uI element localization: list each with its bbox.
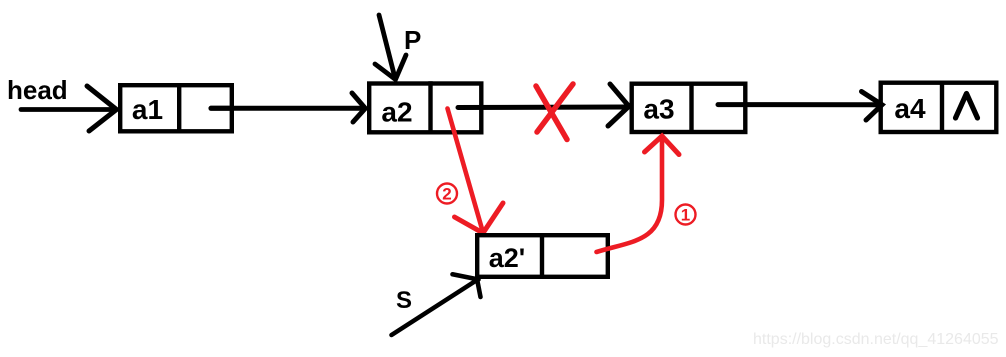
P pointer arrow shaft	[379, 15, 395, 78]
node a3 box	[632, 84, 746, 132]
svg-text:P: P	[404, 25, 421, 55]
a3 incoming arrowhead	[608, 84, 629, 126]
node a4 divider	[940, 81, 944, 135]
red arrow 2 arrowhead	[455, 203, 504, 233]
svg-text:head: head	[7, 75, 68, 105]
node a2 divider	[428, 81, 432, 134]
wire head arrow shaft	[21, 107, 114, 112]
node a1 box	[120, 85, 232, 131]
svg-text:S: S	[396, 287, 412, 314]
a2 incoming arrowhead	[352, 93, 365, 122]
wire a2 to a3	[458, 105, 626, 111]
node a2 box	[369, 84, 481, 133]
svg-text:a4: a4	[894, 93, 926, 124]
node a3 divider	[689, 82, 693, 135]
node a1 divider	[177, 83, 181, 134]
S arrowhead leg lower	[478, 282, 481, 298]
svg-text:a1: a1	[132, 94, 163, 125]
circled 2 label	[437, 184, 457, 204]
a4 incoming arrowhead	[862, 92, 883, 121]
null marker in a4	[956, 94, 978, 119]
S pointer arrow shaft	[392, 280, 478, 335]
head arrowhead	[87, 86, 117, 131]
S arrowhead leg upper	[453, 274, 479, 279]
red arrow 2 shaft (a2 cell to a2')	[448, 109, 484, 233]
P arrowhead	[375, 55, 406, 80]
red arrow 1 arrowhead	[645, 136, 680, 155]
node a2' box	[477, 235, 608, 277]
node a2' divider	[540, 233, 544, 279]
wire a3 to a4	[718, 102, 879, 107]
red X cross line 1	[536, 86, 567, 140]
svg-text:a2': a2'	[489, 243, 525, 273]
red X cross line 2	[537, 84, 573, 132]
svg-text:1: 1	[681, 206, 690, 225]
red arrow 1 (a2' cell to a3) shaft curve	[597, 140, 663, 252]
node a4 box	[881, 83, 997, 132]
circled 1 label	[676, 205, 696, 225]
pointer stub inside a1 right cell	[211, 106, 232, 111]
svg-text:2: 2	[442, 185, 451, 204]
svg-text:https://blog.csdn.net/qq_41264: https://blog.csdn.net/qq_41264055	[753, 331, 999, 348]
svg-text:a2: a2	[381, 97, 412, 128]
svg-text:a3: a3	[643, 94, 674, 125]
wire a1 to a2	[211, 106, 363, 111]
